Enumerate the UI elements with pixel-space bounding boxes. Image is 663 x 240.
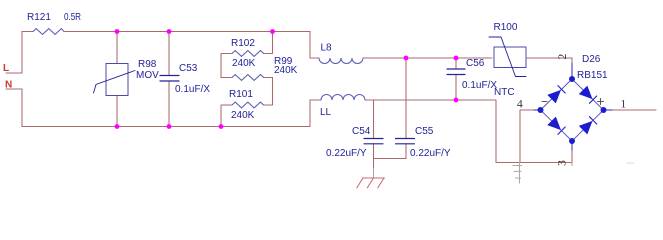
svg-text:C55: C55 (415, 126, 434, 137)
capacitor C54 (364, 139, 383, 144)
resistor R101 (232, 102, 264, 108)
resistor R121 (33, 29, 64, 35)
wire top rail corner down to L8 (310, 32, 319, 59)
svg-text:C53: C53 (179, 63, 198, 74)
svg-text:C54: C54 (352, 126, 371, 137)
wire C53 branch (168, 32, 170, 127)
svg-text:R121: R121 (27, 12, 51, 23)
diode TR (579, 86, 593, 100)
wire after L8 (363, 57, 492, 59)
svg-text:R102: R102 (231, 38, 255, 49)
pin3 stub tail (571, 163, 573, 166)
svg-text:D26: D26 (582, 54, 601, 65)
wire cap bottoms join (374, 159, 407, 169)
wire R100 to bridge (526, 58, 572, 64)
wire pin4 (520, 110, 534, 162)
wire C54 branch (373, 100, 375, 159)
wire bottom rail (22, 100, 321, 127)
svg-text:MOV: MOV (136, 70, 159, 81)
junction dots (115, 29, 120, 34)
svg-text:C56: C56 (466, 58, 485, 69)
bridge vertex dots (569, 76, 575, 82)
capacitor C53 (160, 76, 179, 82)
bridge polarity marks (542, 101, 547, 103)
svg-text:L8: L8 (321, 43, 333, 54)
svg-text:RB151: RB151 (577, 70, 608, 81)
capacitor C55 (396, 139, 415, 144)
resistor R99 (232, 75, 264, 81)
wire C56 branch (455, 58, 457, 100)
svg-text:4: 4 (517, 99, 523, 111)
wire C55 branch (405, 58, 407, 159)
wire top rail (64, 31, 310, 33)
svg-text:240K: 240K (232, 58, 256, 69)
svg-text:1: 1 (621, 99, 627, 111)
thermistor R100 (494, 47, 526, 68)
svg-text:R101: R101 (229, 89, 253, 100)
wire L stub (6, 32, 22, 74)
svg-text:0.22uF/Y: 0.22uF/Y (326, 148, 367, 159)
wire after LL (365, 100, 572, 163)
wire N stub (6, 89, 22, 127)
ground (pin4) (513, 162, 522, 183)
bridge D26 diamond (541, 79, 604, 141)
diode BL (547, 117, 561, 131)
varistor R98 MOV (106, 64, 128, 96)
earth ground (357, 178, 385, 188)
faint artifact dash (627, 162, 634, 164)
diode BR (579, 121, 593, 134)
svg-text:NTC: NTC (494, 87, 515, 98)
svg-text:0.22uF/Y: 0.22uF/Y (410, 148, 451, 159)
svg-text:240K: 240K (274, 65, 298, 76)
svg-text:2: 2 (557, 53, 569, 59)
svg-text:3: 3 (557, 160, 569, 166)
resistor R102 (232, 51, 264, 57)
svg-text:LL: LL (320, 107, 332, 118)
inductor LL (321, 95, 365, 101)
wire top rail left lead (22, 31, 33, 33)
diode TL (547, 90, 561, 104)
svg-text:0.1uF/X: 0.1uF/X (462, 80, 497, 91)
inductor L8 (319, 58, 363, 64)
wire pin1 (604, 109, 614, 111)
wire MOV branch (116, 32, 118, 127)
svg-text:0.5R: 0.5R (64, 12, 81, 23)
svg-text:0.1uF/X: 0.1uF/X (175, 84, 210, 95)
svg-text:R100: R100 (494, 22, 518, 33)
wire R102 chain verticals (221, 32, 273, 127)
capacitor C56 (447, 69, 465, 75)
svg-text:R98: R98 (138, 59, 157, 70)
svg-text:240K: 240K (231, 110, 255, 121)
svg-text:L: L (3, 63, 9, 74)
